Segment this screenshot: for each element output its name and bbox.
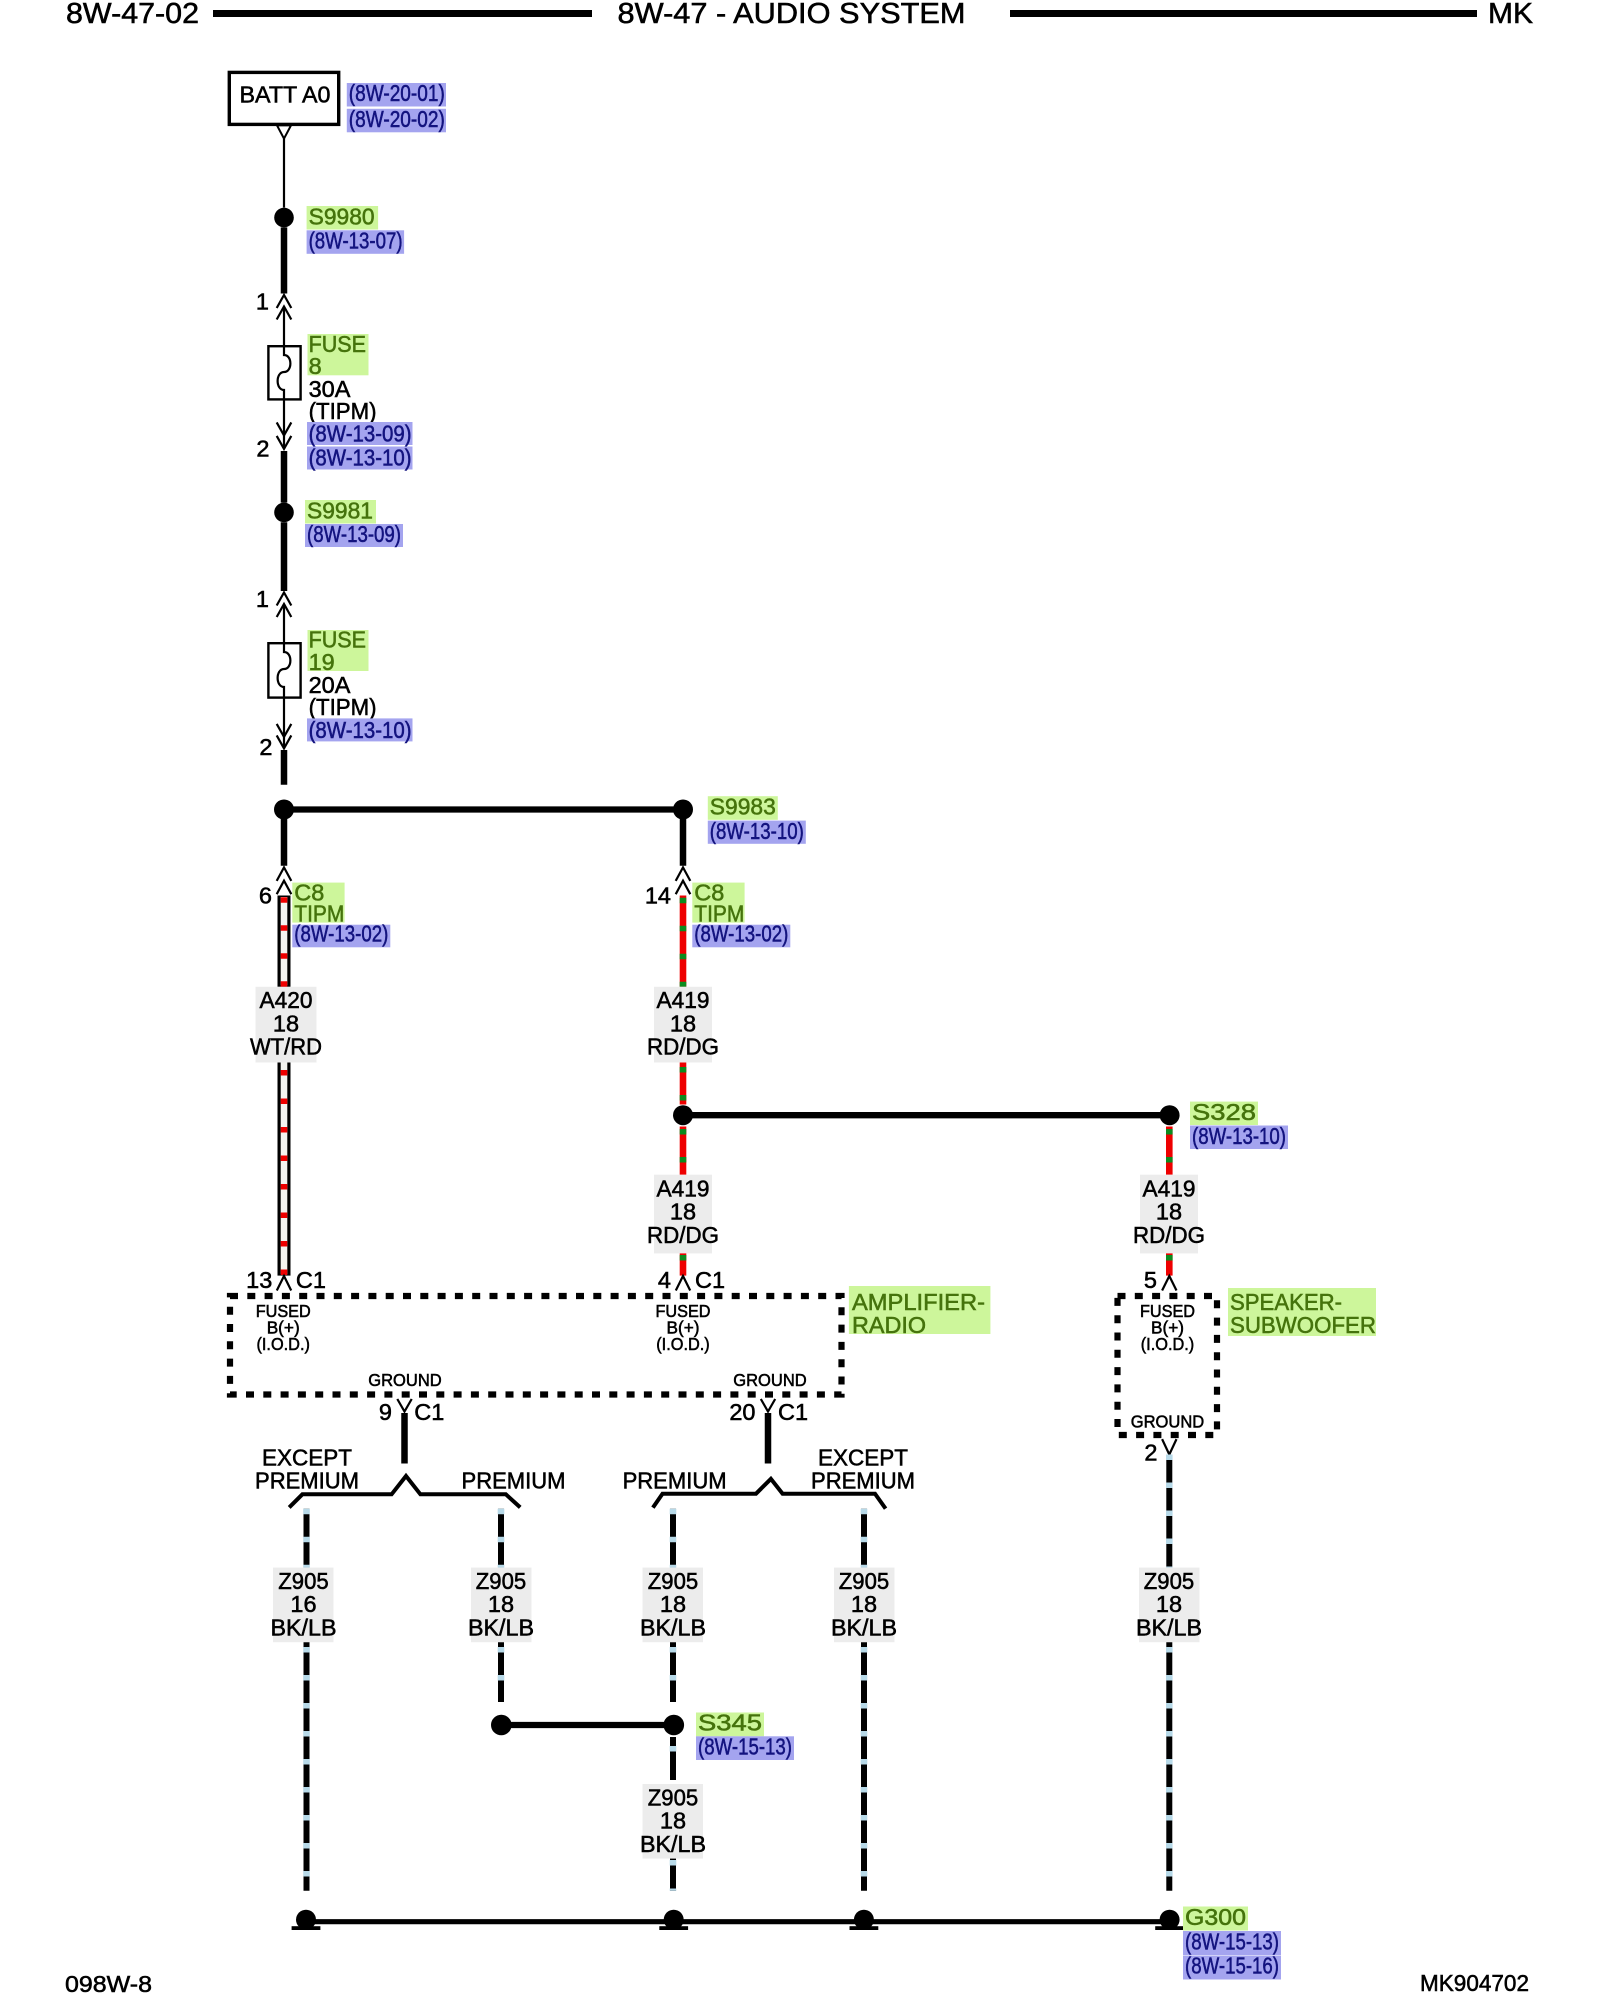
svg-text:2: 2 — [259, 734, 272, 760]
svg-text:SUBWOOFER: SUBWOOFER — [1230, 1312, 1376, 1338]
wire label Z905 18 BK/LB (col G lower) — [640, 1784, 706, 1859]
svg-text:C1: C1 — [778, 1399, 808, 1425]
svg-text:(8W-13-02): (8W-13-02) — [694, 921, 788, 947]
svg-text:6: 6 — [259, 883, 272, 909]
svg-text:S345: S345 — [698, 1710, 762, 1736]
amplifier-radio label — [849, 1286, 991, 1334]
wire A419 RD/DG col I to pin 5 — [1166, 1253, 1173, 1275]
svg-text:Z905: Z905 — [839, 1568, 889, 1594]
link (8W-13-09) — [307, 422, 413, 445]
wire A420 WT/RD lower segment — [278, 1063, 291, 1276]
header rule left — [213, 10, 592, 17]
wire label A419 18 RD/DG (col E lower) — [647, 1175, 719, 1254]
svg-text:PREMIUM: PREMIUM — [255, 1468, 359, 1494]
svg-text:13: 13 — [246, 1267, 272, 1293]
svg-text:098W-8: 098W-8 — [65, 1971, 152, 1997]
svg-text:C1: C1 — [414, 1399, 444, 1425]
wire thick below S9981 — [281, 522, 288, 591]
svg-text:(8W-13-10): (8W-13-10) — [309, 445, 412, 471]
wire thick below S9983 left — [281, 819, 288, 866]
speaker-subwoofer dashed box — [1118, 1296, 1218, 1435]
link (8W-15-13) — [696, 1736, 794, 1760]
svg-text:4: 4 — [658, 1267, 671, 1293]
wire Z905 BK/LB col G upper — [670, 1509, 676, 1568]
svg-text:GROUND: GROUND — [1131, 1412, 1205, 1432]
wire Z905 BK/LB col I upper — [1166, 1455, 1172, 1568]
splice S345 bus — [501, 1722, 674, 1728]
wire thick below pin 9 — [401, 1413, 408, 1464]
svg-text:18: 18 — [660, 1808, 686, 1834]
svg-text:BK/LB: BK/LB — [640, 1614, 706, 1640]
svg-text:S9980: S9980 — [309, 203, 375, 229]
svg-text:Z905: Z905 — [476, 1568, 526, 1594]
battery feed BATT A0 box — [229, 72, 338, 124]
svg-text:BK/LB: BK/LB — [640, 1831, 706, 1857]
svg-text:BK/LB: BK/LB — [1136, 1614, 1202, 1640]
svg-text:18: 18 — [273, 1010, 299, 1036]
wire Z905 BK/LB col G to ground — [670, 1859, 676, 1891]
amplifier pin 13 function FUSED B(+) (I.O.D.) — [256, 1301, 311, 1354]
svg-text:18: 18 — [1156, 1199, 1182, 1225]
fuse F19 label FUSE 19 — [308, 630, 369, 671]
svg-text:1: 1 — [256, 586, 269, 612]
svg-text:18: 18 — [1156, 1591, 1182, 1617]
wire label Z905 18 BK/LB (col D) — [468, 1568, 534, 1643]
fuse 19 wire out thin — [283, 698, 285, 749]
splice S9983 bus — [284, 806, 683, 812]
svg-text:RD/DG: RD/DG — [647, 1222, 719, 1248]
svg-text:S328: S328 — [1192, 1099, 1256, 1125]
wire Z905 BK/LB col C upper — [304, 1509, 310, 1568]
connector C8 TIPM label (left) — [292, 883, 344, 923]
wire label Z905 16 BK/LB (col C) — [271, 1568, 337, 1643]
svg-text:A420: A420 — [260, 987, 313, 1013]
svg-text:PREMIUM: PREMIUM — [811, 1468, 915, 1494]
svg-text:Z905: Z905 — [648, 1568, 698, 1594]
wire label Z905 18 BK/LB (col H) — [831, 1568, 897, 1643]
svg-text:(8W-13-10): (8W-13-10) — [710, 818, 804, 844]
svg-text:(8W-13-09): (8W-13-09) — [309, 421, 412, 447]
wire A419 RD/DG col E mid — [680, 1063, 687, 1105]
wire label Z905 18 BK/LB (col I) — [1136, 1568, 1202, 1643]
fuse 8 pin 1 connector chevrons — [277, 295, 292, 320]
svg-text:BATT A0: BATT A0 — [240, 82, 331, 108]
svg-text:(I.O.D.): (I.O.D.) — [656, 1334, 710, 1354]
ground G300 label — [1183, 1907, 1248, 1931]
wire thick below S9983 right — [680, 819, 687, 866]
speaker-subwoofer label — [1228, 1288, 1376, 1336]
svg-text:EXCEPT: EXCEPT — [818, 1444, 908, 1470]
wire label A419 18 RD/DG (col I) — [1133, 1175, 1205, 1254]
fuse 19 pin 2 connector chevrons — [277, 724, 292, 749]
svg-text:A419: A419 — [1143, 1176, 1196, 1202]
fuse 8 pin 2 connector chevrons — [277, 422, 292, 449]
link (8W-13-10) — [1190, 1126, 1288, 1150]
svg-text:C1: C1 — [296, 1267, 326, 1293]
svg-text:(8W-13-09): (8W-13-09) — [307, 521, 401, 547]
wire A0 thin segment — [283, 139, 285, 208]
svg-text:S9983: S9983 — [710, 794, 776, 820]
svg-text:(8W-13-10): (8W-13-10) — [1192, 1123, 1286, 1149]
ground G300 node col I — [1160, 1910, 1180, 1930]
svg-text:(8W-15-13): (8W-15-13) — [1185, 1928, 1279, 1954]
link (8W-20-01) — [347, 83, 446, 107]
battery output connector triangle — [277, 125, 291, 138]
subwoofer pin 5 function FUSED B(+) (I.O.D.) — [1140, 1301, 1195, 1354]
fuse 19 wire in thin — [283, 604, 285, 643]
svg-text:1: 1 — [256, 289, 269, 315]
svg-text:GROUND: GROUND — [368, 1370, 442, 1390]
wire A419 RD/DG col E below S328 — [680, 1127, 687, 1175]
svg-text:(I.O.D.): (I.O.D.) — [256, 1334, 310, 1354]
link (8W-13-09) — [305, 524, 403, 547]
link (8W-13-10) — [708, 821, 806, 844]
wire thick to S9981 — [281, 451, 288, 503]
svg-text:18: 18 — [660, 1591, 686, 1617]
svg-text:S9981: S9981 — [307, 497, 373, 523]
svg-text:C1: C1 — [695, 1267, 725, 1293]
wire Z905 BK/LB col C lower — [304, 1642, 310, 1891]
svg-text:18: 18 — [851, 1591, 877, 1617]
wire Z905 BK/LB col H upper — [861, 1509, 867, 1568]
wire Z905 BK/LB col I lower — [1166, 1642, 1172, 1891]
wire label A420 18 WT/RD — [250, 987, 322, 1063]
svg-text:A419: A419 — [657, 987, 710, 1013]
svg-text:RADIO: RADIO — [852, 1312, 926, 1338]
svg-text:RD/DG: RD/DG — [1133, 1222, 1205, 1248]
header rule right — [1010, 10, 1477, 17]
fuse 8 wire out thin — [283, 399, 285, 449]
svg-text:8W-47 - AUDIO SYSTEM: 8W-47 - AUDIO SYSTEM — [618, 0, 966, 30]
fuse 19 pin 1 connector chevrons — [277, 593, 292, 618]
svg-text:(I.O.D.): (I.O.D.) — [1141, 1334, 1195, 1354]
splice S9980 — [274, 208, 294, 228]
link (8W-13-10) — [307, 447, 413, 470]
svg-text:Z905: Z905 — [278, 1568, 328, 1594]
svg-text:BK/LB: BK/LB — [831, 1614, 897, 1640]
amplifier-radio U1 dashed box — [230, 1296, 842, 1395]
svg-text:18: 18 — [488, 1591, 514, 1617]
svg-text:2: 2 — [1144, 1440, 1157, 1466]
svg-text:16: 16 — [290, 1591, 316, 1617]
svg-text:MK: MK — [1488, 0, 1534, 30]
link (8W-13-07) — [307, 230, 405, 254]
amplifier pin 4 function FUSED B(+) (I.O.D.) — [656, 1301, 711, 1354]
svg-text:(8W-13-10): (8W-13-10) — [309, 717, 412, 743]
svg-text:GROUND: GROUND — [733, 1370, 807, 1390]
wire Z905 BK/LB col D upper — [498, 1509, 504, 1568]
svg-text:BK/LB: BK/LB — [468, 1614, 534, 1640]
svg-text:A419: A419 — [657, 1176, 710, 1202]
svg-text:WT/RD: WT/RD — [250, 1034, 322, 1060]
svg-text:RD/DG: RD/DG — [647, 1034, 719, 1060]
splice S328 bus — [683, 1112, 1170, 1118]
wire label Z905 18 BK/LB (col G) — [640, 1568, 706, 1643]
svg-text:9: 9 — [379, 1399, 392, 1425]
link (8W-15-16) — [1183, 1956, 1281, 1980]
svg-text:5: 5 — [1144, 1267, 1157, 1293]
link (8W-13-02) — [692, 925, 790, 948]
svg-text:14: 14 — [645, 883, 671, 909]
svg-text:(8W-13-07): (8W-13-07) — [309, 227, 403, 253]
splice S9981 — [274, 503, 294, 523]
svg-text:Z905: Z905 — [648, 1784, 698, 1810]
fuse F8 label FUSE 8 — [308, 334, 369, 375]
svg-text:G300: G300 — [1185, 1904, 1246, 1930]
svg-text:Z905: Z905 — [1144, 1568, 1194, 1594]
link (8W-13-10) — [307, 718, 413, 741]
wire thick below pin 20 — [765, 1413, 772, 1464]
svg-text:(8W-20-01): (8W-20-01) — [349, 80, 445, 106]
wire thick to S9983 — [281, 750, 288, 785]
svg-text:(8W-15-13): (8W-15-13) — [698, 1734, 792, 1760]
ground G300 node col G — [664, 1910, 684, 1930]
svg-text:(8W-15-16): (8W-15-16) — [1185, 1953, 1279, 1979]
ground G300 node col H — [854, 1910, 874, 1930]
wire Z905 BK/LB col G to S345 — [670, 1642, 676, 1702]
svg-text:8W-47-02: 8W-47-02 — [66, 0, 199, 30]
wire thick below S9980 — [281, 227, 288, 293]
ground G300 bus — [306, 1919, 1170, 1924]
wire Z905 BK/LB col H lower — [861, 1642, 867, 1891]
svg-text:20: 20 — [729, 1399, 755, 1425]
wire Z905 BK/LB col G below S345 — [670, 1737, 676, 1780]
connector C8 TIPM label (right) — [692, 883, 744, 923]
ground G300 node col C — [296, 1910, 316, 1930]
svg-text:PREMIUM: PREMIUM — [462, 1468, 566, 1494]
fuse F8 body — [268, 346, 300, 399]
wire A420 WT/RD upper segment — [278, 896, 291, 987]
svg-text:18: 18 — [670, 1010, 696, 1036]
wire Z905 BK/LB col D lower — [498, 1642, 504, 1702]
fuse F19 body — [268, 643, 300, 697]
wire A419 RD/DG col I upper — [1166, 1127, 1173, 1175]
svg-text:MK904702: MK904702 — [1420, 1970, 1529, 1996]
svg-text:(8W-20-02): (8W-20-02) — [349, 106, 445, 132]
svg-text:BK/LB: BK/LB — [271, 1614, 337, 1640]
wire label A419 18 RD/DG (upper) — [647, 987, 719, 1063]
svg-text:EXCEPT: EXCEPT — [262, 1444, 352, 1470]
link (8W-20-02) — [347, 109, 446, 133]
fuse 8 wire in thin — [283, 307, 285, 347]
wire A419 RD/DG col E to pin 4 — [680, 1253, 687, 1275]
svg-text:18: 18 — [670, 1199, 696, 1225]
svg-text:(8W-13-02): (8W-13-02) — [294, 921, 388, 947]
option branch bracket (pin 9) — [289, 1476, 520, 1507]
svg-text:PREMIUM: PREMIUM — [623, 1468, 727, 1494]
link (8W-15-13) — [1183, 1931, 1281, 1955]
link (8W-13-02) — [292, 925, 390, 948]
wire A419 RD/DG col E upper — [680, 896, 687, 987]
option branch bracket (pin 20) — [653, 1479, 886, 1509]
svg-text:2: 2 — [256, 436, 269, 462]
